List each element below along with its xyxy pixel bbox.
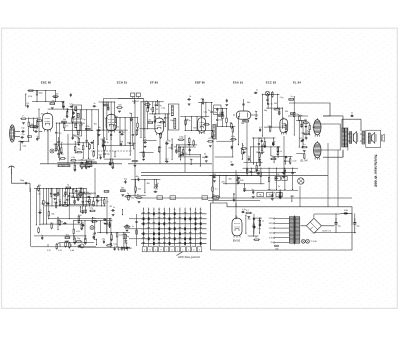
svg-text:U: U xyxy=(188,250,189,252)
svg-text:2n: 2n xyxy=(181,152,183,154)
svg-text:2n: 2n xyxy=(273,141,275,143)
svg-text:0,25: 0,25 xyxy=(119,234,123,236)
svg-text:50k: 50k xyxy=(38,185,41,187)
svg-text:5n: 5n xyxy=(278,186,280,188)
svg-text:Ph: Ph xyxy=(174,209,176,211)
svg-text:70p: 70p xyxy=(124,179,127,181)
svg-text:2M: 2M xyxy=(150,109,153,111)
svg-text:5n: 5n xyxy=(167,117,169,119)
svg-text:300: 300 xyxy=(41,114,44,116)
svg-text:10p: 10p xyxy=(21,128,24,130)
svg-text:5k: 5k xyxy=(77,137,79,139)
svg-text:5k: 5k xyxy=(98,127,100,129)
svg-text:0,1: 0,1 xyxy=(74,110,77,112)
svg-text:220: 220 xyxy=(87,194,90,196)
svg-text:K: K xyxy=(164,209,165,211)
svg-text:2n: 2n xyxy=(113,207,115,209)
svg-text:5k: 5k xyxy=(204,154,206,156)
svg-text:10n: 10n xyxy=(78,215,81,217)
svg-text:50p: 50p xyxy=(185,119,188,121)
svg-text:1M: 1M xyxy=(92,160,95,162)
svg-text:300: 300 xyxy=(94,123,97,125)
svg-text:Tonband: Tonband xyxy=(268,190,275,192)
svg-text:1n: 1n xyxy=(280,151,282,153)
svg-text:50k: 50k xyxy=(219,120,222,122)
svg-text:300: 300 xyxy=(118,104,121,106)
svg-text:240p: 240p xyxy=(20,180,24,182)
svg-text:UKW-Taste gedrückt: UKW-Taste gedrückt xyxy=(178,256,200,259)
svg-text:U: U xyxy=(171,250,172,252)
svg-text:U: U xyxy=(155,250,156,252)
svg-text:100p: 100p xyxy=(39,93,43,95)
svg-text:300: 300 xyxy=(53,193,56,195)
svg-text:5n: 5n xyxy=(351,113,353,115)
svg-text:1k: 1k xyxy=(117,127,119,129)
svg-text:470k: 470k xyxy=(261,145,265,147)
svg-text:T1: T1 xyxy=(169,209,171,211)
svg-text:5n: 5n xyxy=(66,125,68,127)
svg-text:30k: 30k xyxy=(30,124,33,126)
svg-text:T1: T1 xyxy=(189,209,191,211)
svg-text:50µ 350V: 50µ 350V xyxy=(132,101,140,103)
svg-text:2M: 2M xyxy=(268,126,271,128)
svg-text:300: 300 xyxy=(274,103,277,105)
svg-text:1M: 1M xyxy=(115,117,118,119)
svg-text:30k: 30k xyxy=(121,188,124,190)
svg-text:EBC 80: EBC 80 xyxy=(41,80,52,84)
svg-text:300: 300 xyxy=(193,128,196,130)
svg-text:2M: 2M xyxy=(109,206,112,208)
svg-text:0,25: 0,25 xyxy=(147,119,151,121)
svg-text:50p: 50p xyxy=(214,112,217,114)
svg-text:470k: 470k xyxy=(124,243,128,245)
svg-text:50k: 50k xyxy=(136,129,139,131)
svg-text:T1: T1 xyxy=(143,209,145,211)
svg-text:Ph: Ph xyxy=(158,209,160,211)
svg-text:EL 84: EL 84 xyxy=(293,80,301,84)
svg-text:5k: 5k xyxy=(230,162,232,164)
svg-text:100p: 100p xyxy=(179,137,183,139)
svg-text:Ph: Ph xyxy=(200,209,202,211)
svg-text:1k: 1k xyxy=(104,102,106,104)
svg-text:0,25: 0,25 xyxy=(256,170,260,172)
svg-text:0,25: 0,25 xyxy=(26,103,30,105)
svg-text:U: U xyxy=(179,209,180,211)
svg-text:5n: 5n xyxy=(40,209,42,211)
svg-text:0,25: 0,25 xyxy=(209,138,213,140)
svg-text:50k: 50k xyxy=(63,119,66,121)
svg-text:2M: 2M xyxy=(57,243,60,245)
svg-text:K: K xyxy=(185,209,186,211)
svg-text:5n: 5n xyxy=(93,234,95,236)
svg-text:EM 80: EM 80 xyxy=(233,239,241,242)
svg-text:7V 0,3A: 7V 0,3A xyxy=(310,240,317,243)
svg-text:50p: 50p xyxy=(120,141,123,143)
svg-text:70p: 70p xyxy=(77,238,80,240)
svg-text:0,1µ: 0,1µ xyxy=(258,220,261,222)
svg-text:0,25: 0,25 xyxy=(76,231,80,233)
svg-text:2n: 2n xyxy=(255,237,257,239)
svg-text:40p: 40p xyxy=(66,234,69,236)
svg-text:P: P xyxy=(160,250,161,252)
svg-text:50p: 50p xyxy=(264,110,267,112)
svg-text:1n: 1n xyxy=(22,116,24,118)
svg-text:30k: 30k xyxy=(80,160,83,162)
svg-text:K: K xyxy=(193,250,194,252)
svg-text:1n: 1n xyxy=(41,235,43,237)
svg-text:300: 300 xyxy=(147,183,150,185)
svg-text:220: 220 xyxy=(50,223,53,225)
svg-text:100p: 100p xyxy=(91,151,95,153)
svg-text:220: 220 xyxy=(100,139,103,141)
svg-text:1n: 1n xyxy=(127,193,129,195)
svg-text:0,1: 0,1 xyxy=(246,210,249,212)
svg-text:5n: 5n xyxy=(248,156,250,158)
svg-text:30k: 30k xyxy=(138,189,141,191)
svg-text:K: K xyxy=(199,250,200,252)
svg-text:50µ: 50µ xyxy=(357,226,360,228)
svg-text:40p: 40p xyxy=(136,176,139,178)
svg-text:40p: 40p xyxy=(248,218,251,220)
svg-text:0,1: 0,1 xyxy=(300,138,303,140)
svg-text:40p: 40p xyxy=(170,120,173,122)
svg-text:1M: 1M xyxy=(129,248,132,250)
svg-text:2n: 2n xyxy=(37,136,39,138)
svg-text:50k: 50k xyxy=(304,120,307,122)
svg-text:70p: 70p xyxy=(129,113,132,115)
svg-text:30k: 30k xyxy=(312,127,315,129)
svg-text:220: 220 xyxy=(88,159,91,161)
svg-text:100p: 100p xyxy=(53,202,57,204)
svg-text:5n: 5n xyxy=(109,223,111,225)
svg-text:5k: 5k xyxy=(67,185,69,187)
svg-text:U: U xyxy=(153,209,154,211)
svg-text:220: 220 xyxy=(55,93,58,95)
svg-text:50k: 50k xyxy=(63,196,66,198)
svg-text:40p: 40p xyxy=(200,98,203,100)
svg-text:50p: 50p xyxy=(143,139,146,141)
svg-text:50k: 50k xyxy=(144,101,147,103)
svg-text:0,1: 0,1 xyxy=(39,117,42,119)
svg-text:30k: 30k xyxy=(259,138,262,140)
svg-text:ECC 83: ECC 83 xyxy=(266,80,277,84)
svg-text:Telefunken W 668: Telefunken W 668 xyxy=(374,154,379,188)
svg-text:EBF 80: EBF 80 xyxy=(195,80,205,84)
svg-text:70p: 70p xyxy=(190,159,193,161)
svg-text:30k: 30k xyxy=(155,189,158,191)
svg-text:470k: 470k xyxy=(166,140,170,142)
svg-text:300: 300 xyxy=(229,178,232,180)
svg-text:1M: 1M xyxy=(283,170,286,172)
svg-text:30k: 30k xyxy=(51,213,54,215)
svg-text:ECH 81: ECH 81 xyxy=(117,80,128,84)
svg-text:5n: 5n xyxy=(278,146,280,148)
svg-text:70p: 70p xyxy=(51,100,54,102)
svg-text:U: U xyxy=(144,250,145,252)
svg-text:2n: 2n xyxy=(255,111,257,113)
svg-text:5n: 5n xyxy=(251,189,253,191)
svg-text:0,1µ: 0,1µ xyxy=(258,228,261,230)
svg-text:470k: 470k xyxy=(240,180,244,182)
svg-text:K: K xyxy=(149,250,150,252)
svg-text:50p: 50p xyxy=(73,135,76,137)
svg-text:470k: 470k xyxy=(85,126,89,128)
svg-text:EAA 91: EAA 91 xyxy=(233,80,244,84)
svg-text:0,25: 0,25 xyxy=(293,161,297,163)
svg-text:300: 300 xyxy=(285,111,288,113)
svg-text:U: U xyxy=(148,209,149,211)
svg-text:K: K xyxy=(195,209,196,211)
svg-text:5n: 5n xyxy=(242,145,244,147)
svg-text:1n: 1n xyxy=(93,103,95,105)
svg-text:40p: 40p xyxy=(202,157,205,159)
svg-text:2n: 2n xyxy=(208,110,210,112)
svg-text:50k: 50k xyxy=(271,156,274,158)
svg-text:5k: 5k xyxy=(143,129,145,131)
svg-text:EF 89: EF 89 xyxy=(150,80,158,84)
svg-text:40p: 40p xyxy=(247,102,250,104)
svg-text:30k: 30k xyxy=(213,174,216,176)
svg-text:50p: 50p xyxy=(61,102,64,104)
svg-text:0,25: 0,25 xyxy=(141,152,145,154)
svg-text:50p: 50p xyxy=(158,105,161,107)
svg-text:2n: 2n xyxy=(54,196,56,198)
svg-text:1k: 1k xyxy=(189,96,191,98)
svg-text:30k: 30k xyxy=(241,123,244,125)
svg-text:1n: 1n xyxy=(256,90,258,92)
svg-text:1n: 1n xyxy=(262,221,264,223)
svg-text:470k: 470k xyxy=(28,96,32,98)
svg-text:220: 220 xyxy=(99,200,102,202)
svg-text:1k: 1k xyxy=(162,119,164,121)
svg-text:0,1: 0,1 xyxy=(259,127,262,129)
svg-text:1M: 1M xyxy=(71,196,74,198)
svg-text:70p: 70p xyxy=(82,119,85,121)
svg-text:2n: 2n xyxy=(132,226,134,228)
svg-text:30k: 30k xyxy=(174,147,177,149)
svg-text:220: 220 xyxy=(222,181,225,183)
svg-text:50k: 50k xyxy=(105,118,108,120)
svg-text:5k: 5k xyxy=(121,131,123,133)
svg-text:FW: FW xyxy=(277,174,280,176)
svg-text:1n: 1n xyxy=(303,144,305,146)
svg-text:50µ: 50µ xyxy=(338,226,341,228)
svg-text:2n: 2n xyxy=(291,96,293,98)
svg-text:B250 C75: B250 C75 xyxy=(323,231,331,233)
svg-text:0,1: 0,1 xyxy=(215,189,218,191)
svg-text:1k: 1k xyxy=(132,143,134,145)
svg-text:300: 300 xyxy=(98,155,101,157)
svg-text:10n: 10n xyxy=(131,197,134,199)
